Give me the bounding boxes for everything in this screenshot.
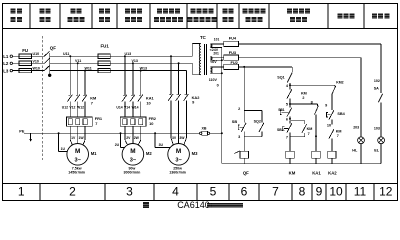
fuse FU pole 3 bbox=[19, 68, 32, 72]
lighting lamp EL bbox=[378, 137, 385, 144]
svg-text:EL: EL bbox=[374, 149, 380, 153]
node wire 7 on coolant rung bbox=[315, 135, 317, 137]
svg-text:203: 203 bbox=[353, 125, 359, 129]
svg-text:XB: XB bbox=[202, 127, 207, 131]
svg-text:KM: KM bbox=[336, 130, 342, 134]
svg-text:SA: SA bbox=[374, 86, 379, 90]
contact KM-2 bbox=[289, 85, 291, 89]
svg-text:HL: HL bbox=[352, 149, 358, 153]
svg-text:FU1: FU1 bbox=[101, 44, 110, 49]
wire drop phase 2 for M2 bbox=[132, 63, 134, 95]
24V feed line to lamp EL bbox=[239, 43, 382, 45]
signal lamp HL bbox=[358, 137, 365, 144]
interlock contact KM on rapid rung bbox=[329, 129, 334, 138]
svg-text:SQ2: SQ2 bbox=[254, 119, 261, 123]
svg-text:CA6140: CA6140 bbox=[177, 200, 210, 210]
contactor KM contact 2 bbox=[76, 94, 78, 96]
motor M3 lead slants bbox=[171, 138, 173, 145]
motor M1 lead slants bbox=[70, 140, 72, 145]
svg-text:U11: U11 bbox=[63, 52, 69, 56]
svg-text:W11: W11 bbox=[85, 66, 92, 70]
svg-text:V12: V12 bbox=[69, 106, 75, 110]
junction on busbar row 2 bbox=[132, 62, 134, 64]
wire below contact 3 bbox=[140, 101, 142, 117]
svg-text:W14: W14 bbox=[132, 106, 139, 110]
svg-text:7: 7 bbox=[337, 134, 339, 138]
svg-text:3: 3 bbox=[126, 185, 133, 199]
svg-text:102: 102 bbox=[374, 79, 380, 83]
svg-text:M: M bbox=[176, 148, 181, 155]
contactor KA2 contact 2 bbox=[177, 94, 179, 96]
svg-text:4: 4 bbox=[172, 185, 179, 199]
contactor KA2 contact 3 bbox=[185, 94, 187, 96]
lighting rung wire 101/102 bbox=[380, 44, 382, 93]
busbar U11 (row 1) bbox=[50, 55, 193, 57]
svg-text:KM2: KM2 bbox=[336, 81, 343, 85]
svg-text:6: 6 bbox=[241, 185, 248, 199]
svg-text:1360r/min: 1360r/min bbox=[169, 171, 186, 175]
svg-text:W10: W10 bbox=[33, 67, 40, 71]
breaker QF pole 2 blade bbox=[44, 58, 49, 63]
start parallel branch top bbox=[290, 120, 305, 122]
node 4 bbox=[289, 84, 291, 86]
header column labels (Chinese function captions) bbox=[11, 9, 16, 14]
svg-text:2: 2 bbox=[302, 96, 304, 100]
svg-text:9: 9 bbox=[325, 104, 327, 108]
svg-text:10: 10 bbox=[146, 100, 150, 105]
svg-text:M3: M3 bbox=[192, 151, 198, 156]
svg-text:L2: L2 bbox=[3, 61, 9, 66]
tap for QF release rung bbox=[243, 66, 245, 68]
contactor KM contact 1 bbox=[68, 94, 70, 96]
TC primary winding bbox=[199, 44, 201, 75]
svg-text:3V: 3V bbox=[172, 136, 177, 140]
wire V10 bbox=[32, 62, 45, 64]
svg-text:L3: L3 bbox=[3, 68, 9, 73]
bottom zone-number row bbox=[3, 182, 398, 184]
busbar W11 (row 3) bbox=[50, 70, 187, 72]
motor M2 frame earth lead bbox=[120, 132, 122, 134]
node 5 bbox=[289, 103, 291, 105]
junction on busbar row 2 bbox=[178, 62, 180, 64]
svg-text:M2: M2 bbox=[146, 151, 152, 156]
motor M3 circle bbox=[168, 144, 190, 166]
wire drop phase 1 for M1 bbox=[69, 56, 71, 95]
svg-text:KM: KM bbox=[289, 170, 296, 175]
svg-text:2: 2 bbox=[69, 185, 76, 199]
svg-text:3~: 3~ bbox=[75, 158, 82, 164]
control return rail wire 0 bbox=[222, 163, 381, 165]
link wire 5 to coolant rung bbox=[290, 103, 318, 105]
svg-text:M: M bbox=[75, 148, 80, 155]
junction on busbar row 1 bbox=[124, 55, 126, 57]
fuse FU pole 2 bbox=[19, 61, 32, 65]
contactor KM contact 3 bbox=[83, 94, 85, 96]
junction on busbar row 3 bbox=[140, 70, 142, 72]
coolant rung corner bbox=[317, 104, 319, 106]
110V control line wire 1 bbox=[239, 66, 293, 68]
TC secondary 24V winding bbox=[210, 44, 212, 48]
motor M1 circle bbox=[67, 144, 89, 166]
svg-text:KA2: KA2 bbox=[328, 170, 337, 175]
svg-text:201: 201 bbox=[213, 51, 219, 55]
junction on busbar row 2 bbox=[77, 62, 79, 64]
svg-text:5: 5 bbox=[286, 103, 288, 107]
contactor KA2 contact 1 bbox=[169, 94, 171, 96]
contactor KA1 contact 1 bbox=[123, 94, 125, 96]
TC primary feed from busbar U bbox=[191, 44, 193, 57]
svg-text:U12: U12 bbox=[62, 106, 68, 110]
svg-text:7: 7 bbox=[91, 100, 93, 105]
svg-text:FU: FU bbox=[22, 48, 28, 53]
svg-text:U10: U10 bbox=[33, 52, 40, 56]
svg-text:SQ1: SQ1 bbox=[277, 75, 284, 79]
svg-text:7: 7 bbox=[286, 135, 288, 139]
svg-text:0: 0 bbox=[217, 84, 219, 88]
node 6 bbox=[289, 118, 291, 120]
svg-text:KA1: KA1 bbox=[312, 170, 321, 175]
svg-text:110V: 110V bbox=[209, 78, 218, 82]
wire W10 bbox=[32, 70, 45, 72]
svg-text:3000r/min: 3000r/min bbox=[124, 171, 141, 175]
svg-text:10: 10 bbox=[327, 124, 331, 128]
svg-text:10: 10 bbox=[149, 121, 153, 126]
TC secondary 6V winding bbox=[210, 57, 212, 61]
svg-text:2W: 2W bbox=[134, 136, 140, 140]
wire L1 to fuse FU bbox=[13, 55, 20, 57]
busbar V11 (row 2) bbox=[50, 62, 193, 64]
breaker QF linkage and operator bbox=[49, 53, 51, 74]
svg-text:W12: W12 bbox=[77, 106, 84, 110]
svg-text:V13: V13 bbox=[132, 59, 138, 63]
wire below contact 1 bbox=[170, 101, 172, 138]
wire L3 to fuse FU bbox=[13, 70, 20, 72]
wire drop phase 3 for M3 bbox=[185, 71, 187, 95]
svg-text:FU3: FU3 bbox=[229, 50, 237, 55]
svg-text:11: 11 bbox=[354, 185, 367, 199]
earth ground symbol bbox=[30, 133, 32, 139]
svg-text:M: M bbox=[130, 148, 135, 155]
header row grid bbox=[3, 28, 398, 30]
svg-text:3: 3 bbox=[238, 135, 240, 139]
svg-text:3~: 3~ bbox=[175, 158, 182, 164]
motor M3 frame earth lead bbox=[154, 132, 156, 134]
svg-text:FU4: FU4 bbox=[229, 36, 237, 41]
contactor KA1 contact 3 bbox=[139, 94, 141, 96]
wire U10 bbox=[32, 55, 45, 57]
wire drop phase 2 for M3 bbox=[178, 63, 180, 94]
svg-text:2: 2 bbox=[238, 107, 240, 111]
svg-text:101: 101 bbox=[214, 38, 220, 42]
junction on busbar row 3 bbox=[84, 70, 86, 72]
svg-text:U14: U14 bbox=[116, 106, 122, 110]
svg-text:KM: KM bbox=[307, 127, 313, 131]
svg-text:SB4: SB4 bbox=[337, 112, 345, 116]
contactor KA1 contact 2 bbox=[131, 94, 133, 96]
svg-text:V14: V14 bbox=[124, 106, 130, 110]
thermal relay FR2 heater box bbox=[120, 117, 146, 126]
wire below contact 1 bbox=[124, 101, 126, 117]
svg-text:8: 8 bbox=[311, 100, 313, 104]
TC secondary 110V winding bbox=[210, 67, 212, 73]
signal lamp rung wire 201/203 bbox=[360, 58, 362, 137]
wire below contact 2 bbox=[132, 101, 134, 117]
wire drop phase 1 for M3 bbox=[170, 56, 172, 94]
svg-text:<6V: <6V bbox=[210, 60, 217, 64]
self-holding contact KM bbox=[304, 121, 306, 124]
svg-text:TC: TC bbox=[200, 35, 207, 40]
wire L2 to fuse FU bbox=[13, 62, 20, 64]
svg-text:1450r/min: 1450r/min bbox=[68, 171, 85, 175]
svg-text:L1: L1 bbox=[3, 54, 9, 59]
svg-text:1V: 1V bbox=[71, 136, 76, 140]
svg-text:3W: 3W bbox=[179, 136, 185, 140]
TC primary return to busbar V bbox=[191, 63, 193, 74]
svg-text:KM: KM bbox=[301, 92, 307, 96]
svg-text:103: 103 bbox=[374, 126, 380, 130]
svg-text:2U: 2U bbox=[115, 143, 120, 147]
svg-text:3~: 3~ bbox=[130, 158, 137, 164]
wire drop phase 3 for M2 bbox=[140, 71, 142, 96]
svg-text:SB: SB bbox=[232, 119, 238, 124]
TC core bbox=[204, 44, 206, 75]
svg-text:U13: U13 bbox=[125, 52, 132, 56]
breaker release coil QF bbox=[234, 151, 240, 153]
contactor coil KM bbox=[286, 151, 294, 158]
svg-text:10: 10 bbox=[329, 185, 343, 199]
svg-text:2V: 2V bbox=[126, 136, 131, 140]
svg-text:7: 7 bbox=[95, 121, 97, 126]
motor M2 lead slants bbox=[125, 140, 128, 145]
motor M2 circle bbox=[122, 144, 144, 166]
wire below contact 1 bbox=[69, 101, 71, 117]
wire below contact 3 bbox=[185, 101, 187, 138]
thermal relay FR1 heater box bbox=[66, 117, 92, 126]
svg-text:QF: QF bbox=[50, 45, 56, 50]
svg-text:7: 7 bbox=[308, 132, 310, 136]
junction on busbar row 1 bbox=[170, 55, 172, 57]
svg-text:V10: V10 bbox=[33, 59, 39, 63]
relay coil KA2 bbox=[328, 151, 336, 158]
secondary common connections to wire 0 bbox=[210, 47, 221, 49]
svg-text:1W: 1W bbox=[79, 136, 85, 140]
svg-text:5: 5 bbox=[210, 185, 217, 199]
svg-text:9: 9 bbox=[316, 185, 323, 199]
wire drop phase 1 for M2 bbox=[124, 56, 126, 95]
junction on busbar row 1 bbox=[69, 55, 71, 57]
wire drop phase 2 for M1 bbox=[77, 63, 79, 95]
svg-text:M1: M1 bbox=[91, 151, 97, 156]
motor M1 frame earth lead bbox=[58, 132, 60, 134]
breaker QF pole 3 blade bbox=[44, 66, 49, 71]
interlock link wire 4 to rapid rung bbox=[290, 84, 335, 86]
6V feed line to lamp HL bbox=[239, 57, 362, 59]
wire below contact 2 bbox=[178, 101, 180, 138]
svg-text:QF: QF bbox=[243, 170, 249, 175]
fuse FU pole 1 bbox=[19, 54, 32, 58]
caption title under frame bbox=[143, 202, 149, 208]
wire 0 vertical bbox=[221, 48, 223, 164]
svg-text:3U: 3U bbox=[159, 143, 164, 147]
svg-text:6: 6 bbox=[286, 118, 288, 122]
machine cabinet boundary (dashed) bbox=[42, 36, 44, 162]
svg-text:7: 7 bbox=[272, 185, 279, 199]
breaker QF pole 1 blade bbox=[44, 51, 49, 56]
wire below contact 2 bbox=[77, 101, 79, 117]
relay coil KA1 bbox=[312, 151, 320, 158]
coolant switch contact bbox=[315, 106, 319, 115]
wire below contact 3 bbox=[84, 101, 86, 117]
svg-text:8: 8 bbox=[299, 185, 306, 199]
svg-text:12: 12 bbox=[379, 185, 393, 199]
svg-text:1: 1 bbox=[18, 185, 25, 199]
svg-text:1U: 1U bbox=[61, 147, 66, 151]
wire drop phase 3 for M1 bbox=[84, 71, 86, 96]
